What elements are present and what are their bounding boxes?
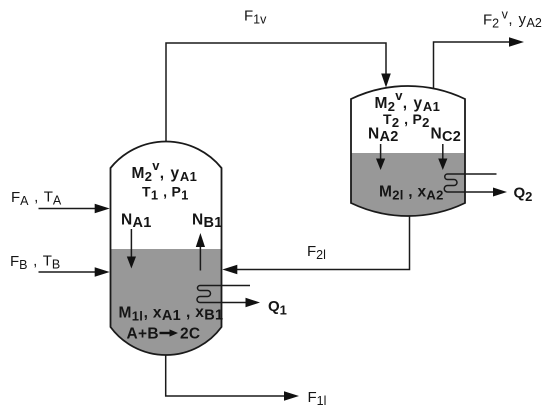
svg-text:2C: 2C bbox=[180, 326, 200, 343]
svg-text:A+B: A+B bbox=[127, 326, 159, 343]
svg-text:NA2: NA2 bbox=[368, 126, 399, 146]
svg-text:NC2: NC2 bbox=[431, 126, 462, 146]
svg-text:NA1: NA1 bbox=[121, 212, 152, 232]
svg-text:NB1: NB1 bbox=[192, 212, 223, 232]
